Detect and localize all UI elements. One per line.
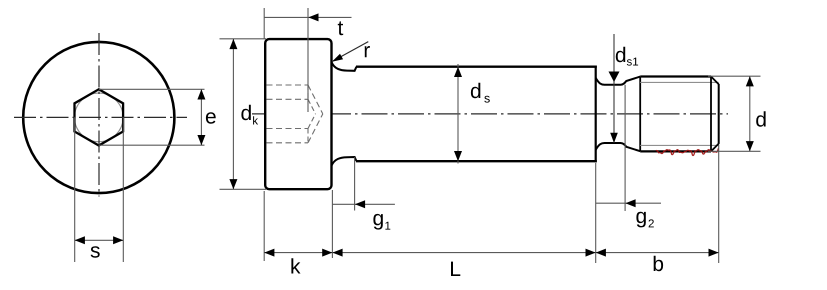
d extension line bottom [708,150,761,152]
socket hidden line bottom inner [267,128,309,130]
label b [654,256,663,271]
b arrow left [596,249,606,257]
b dimension line [596,252,719,254]
g1 extension line [354,157,356,210]
d arrow down [746,141,754,151]
g1 dimension line [332,203,395,205]
e extension line top [99,88,205,90]
label dk [241,105,250,120]
socket hidden line top inner [267,98,309,100]
s arrow left [75,236,85,244]
t dimension line [264,16,351,18]
dk bottom extension line [220,188,267,190]
L/b shared extension line [595,163,597,263]
e extension line bottom [99,144,205,146]
socket cone outer upper [308,85,323,114]
thread start vertical [639,77,641,152]
socket hidden line top outer [267,84,309,86]
socket cone inner lower [308,114,316,129]
s extension line right [122,118,124,263]
ds1 arrow bottom [610,133,618,143]
ds1 arrow top [609,72,620,83]
thread end face [718,84,720,144]
s dimension line [75,239,124,241]
t arrow [308,13,318,21]
thread root top [640,81,718,83]
chamfer slant top [711,77,719,85]
b arrow right [709,249,719,257]
shoulder top line [356,65,597,67]
label r [365,46,370,57]
dk arrow down [229,179,237,189]
L dimension line [332,252,595,254]
k extension line left [263,191,265,261]
s extension line left [74,118,76,263]
g1 undercut groove top [332,62,357,71]
dk arrow up [229,39,237,49]
L arrow left [332,249,342,257]
ds1 dimension line [613,34,615,143]
label g1 [373,214,382,230]
vertical centerline (front view) [98,33,100,197]
dk top extension line [220,38,267,40]
g2 arrow [625,199,635,207]
e arrow down [197,135,205,145]
ds arrow down [454,151,462,161]
label g2 [636,212,645,228]
k extension line right [331,190,333,258]
socket inscribed circle [75,93,124,142]
e arrow up [197,89,205,99]
hex socket outline [75,89,124,145]
label ds [471,83,480,98]
t extension line right [307,8,309,112]
t extension line left [263,8,265,39]
socket cone inner upper [308,99,316,114]
k dimension line [264,252,332,254]
head outer circle (front view) [23,42,174,193]
d dimension line [749,76,751,151]
red watermark scribble [656,148,718,155]
d arrow up [746,76,754,86]
chamfer start vertical [710,77,712,152]
label t [338,21,343,35]
L arrow right [586,249,596,257]
g1 arrow [355,200,365,208]
r leader line [333,42,368,61]
label s [91,246,100,258]
label L [451,262,460,276]
g2 extension line [624,85,626,211]
g2 neck groove bottom [596,143,641,151]
socket hidden line bottom outer [267,142,309,144]
head (side view) [265,39,331,189]
d extension line top [708,75,761,77]
label e [206,112,216,124]
chamfer slant bottom [711,144,719,152]
g2 dimension line [596,202,661,204]
shoulder bottom line [356,160,597,162]
dk dimension line [232,39,234,189]
label k [291,258,300,273]
main axis centerline [252,113,728,115]
socket bottom hidden vertical bottom [307,129,309,143]
horizontal centerline (front view) [14,116,187,118]
shoulder end face [595,66,597,163]
socket cone outer lower [308,114,323,143]
thread crest bottom [640,150,711,152]
g1 undercut groove bottom [332,157,357,166]
s arrow right [113,236,123,244]
label ds1 [616,47,625,62]
e dimension line [200,89,202,145]
ds dimension line [457,64,459,164]
b extension line right [718,145,720,263]
k arrow right [322,249,332,257]
thread root bottom [640,144,718,146]
g2 neck groove top [596,77,641,85]
r leader arrow [332,54,343,62]
thread crest top [640,75,711,77]
label d [756,111,765,126]
socket bottom hidden vertical top [307,85,309,99]
ds arrow up [454,67,462,77]
k arrow left [264,249,274,257]
